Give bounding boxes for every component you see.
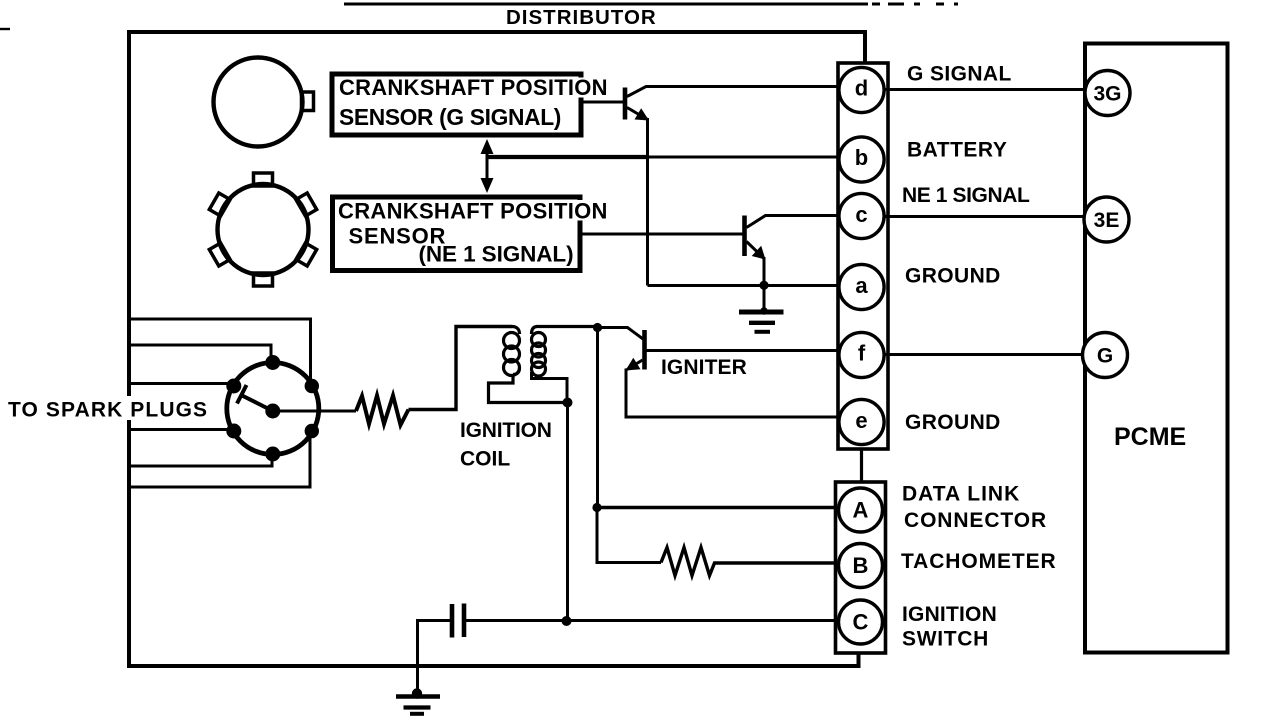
wire f to G [884,353,1084,356]
node terminal A [839,488,883,532]
svg-text:c: c [855,202,867,227]
wire battery b wire [487,155,648,159]
svg-text:3G: 3G [1093,83,1121,106]
wire Q1 emitter down [646,118,649,286]
ground symbol near Q2 [760,307,768,315]
node terminal d [839,67,884,112]
svg-text:f: f [858,341,866,366]
node connector strip d b c a f e [863,32,866,63]
node junction A tap [592,503,601,512]
svg-text:d: d [855,76,868,101]
wire secondary bottom link [532,372,568,403]
wire NE sensor to transistor base [582,233,743,236]
resistor rotor to coil [356,396,409,426]
transistor Q1 (G signal) [623,88,628,120]
svg-text:G SIGNAL: G SIGNAL [907,63,1012,86]
transistor Q2 (NE signal) [742,216,747,257]
wire double-headed arrow between sensor boxes [486,150,489,181]
ground symbol below box [396,694,440,699]
wire capacitor left to ground [418,621,451,693]
svg-text:C: C [853,610,869,635]
node terminal 3G [1085,71,1130,116]
wire coil common down to capacitor wire [566,403,569,622]
svg-text:CONNECTOR: CONNECTOR [904,509,1047,532]
node rotor terminals [265,355,280,370]
svg-text:TO SPARK PLUGS: TO SPARK PLUGS [8,399,208,422]
svg-text:TACHOMETER: TACHOMETER [901,550,1057,573]
node junction coil common [563,398,573,408]
wire spark plug lead 4 [129,428,234,431]
svg-text:A: A [853,498,869,523]
svg-text:BATTERY: BATTERY [907,139,1007,162]
node terminal e [839,399,884,444]
inductor secondary winding [532,327,546,377]
wire spark plug lead 2 [129,345,271,362]
svg-text:PCME: PCME [1114,423,1186,451]
wire spark plug lead 5 [129,454,272,467]
wire to data link connector A [597,506,839,509]
svg-text:(NE 1 SIGNAL): (NE 1 SIGNAL) [419,242,574,267]
node terminal a [839,264,884,309]
wire G sensor to transistor base [582,101,624,104]
wire capacitor right to C terminal [466,619,839,622]
wire junction down to A and B [596,328,599,508]
node junction coil + to igniter [593,323,602,332]
node junction Q2 emitter / a wire [759,281,768,290]
svg-text:B: B [853,553,869,578]
node NE reluctor (toothed wheel) [218,184,309,275]
node terminal b [839,137,884,182]
wire rotor output [280,410,356,413]
capacitor condenser [450,604,455,638]
node G pickup tab [302,92,314,111]
wire ABC strip bottom to box edge [857,653,860,666]
node PCME box [1085,44,1228,653]
wire d to 3G [884,88,1086,91]
wire spark plug lead 1 [129,319,311,382]
wire Q3 emitter to e [626,369,839,418]
svg-text:G: G [1097,345,1113,368]
svg-text:GROUND: GROUND [905,265,1001,288]
node G signal pickup rotor (plain circle) [214,58,303,147]
wire Q2 emitter to ground [763,257,766,311]
node terminal f [839,332,884,377]
svg-text:IGNITION: IGNITION [902,603,997,626]
wire rotor arm [242,396,273,412]
node terminal C [839,600,883,644]
wire down to tach resistor [597,508,661,563]
node terminal G (PCME) [1083,333,1128,378]
inductor primary winding [504,327,520,376]
svg-text:SENSOR (G SIGNAL): SENSOR (G SIGNAL) [339,104,561,130]
svg-text:CRANKSHAFT POSITION: CRANKSHAFT POSITION [338,199,608,224]
wire distributor box outline [129,32,865,666]
node junction capacitor / coil common [562,616,572,626]
svg-text:IGNITION: IGNITION [460,419,552,442]
svg-text:COIL: COIL [460,448,510,471]
wire secondary top to junction [536,325,598,328]
svg-text:e: e [855,408,867,433]
svg-text:GROUND: GROUND [905,411,1001,434]
node connector strip A B C [836,482,886,653]
node label TO SPARK PLUGS [4,396,208,420]
svg-text:a: a [855,273,868,298]
node distributor rotor circle [227,363,319,455]
node terminal 3E [1084,197,1129,242]
resistor tachometer [661,548,839,576]
wire a ground wire [648,284,840,287]
svg-text:DISTRIBUTOR: DISTRIBUTOR [506,6,657,29]
wire primary bottom U link [489,375,568,403]
ignition coil left lead [409,327,513,410]
svg-text:SWITCH: SWITCH [902,628,989,651]
wire spark plug lead 6 [129,432,310,487]
transistor Q3 igniter [598,328,644,340]
node terminal c [839,193,884,238]
svg-text:3E: 3E [1094,209,1120,232]
svg-text:IGNITER: IGNITER [661,356,747,379]
node sensor box NE [333,197,581,271]
node terminal B [839,544,883,588]
wire left margin tick [0,28,10,30]
node rotor center dot [265,404,280,419]
node ground junction dot [412,688,422,698]
wire spark plug lead 3 [129,382,234,385]
wire top rule above title [344,3,958,6]
wire c to 3E [884,215,1086,218]
svg-text:DATA LINK: DATA LINK [902,483,1020,506]
wire e strip to ABC strip [860,449,863,482]
svg-text:NE 1 SIGNAL: NE 1 SIGNAL [902,184,1030,207]
node sensor box G [332,74,581,135]
svg-text:CRANKSHAFT POSITION: CRANKSHAFT POSITION [339,75,608,100]
svg-text:b: b [855,145,868,170]
